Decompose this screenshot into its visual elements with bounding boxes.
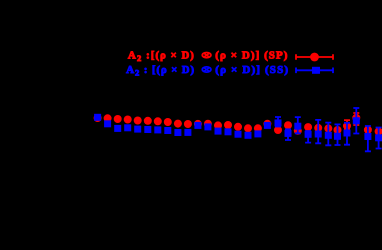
blue point 10 [184,129,191,136]
blue point 2 [104,120,111,127]
blue errorbar x=356.3 [353,108,359,134]
svg-text:(ρ × D)] (SP): (ρ × D)] (SP) [215,50,288,62]
blue point 1 [94,114,101,121]
red point 17 [254,124,262,132]
blue errorbar x=347.0 [344,123,350,145]
red point 8 [164,118,172,126]
blue point 27 [353,117,360,124]
blue point 26 [344,130,351,137]
red point 3 [114,115,122,123]
blue point 5 [134,126,141,133]
blue point 20 [285,130,292,137]
red point 26 [343,122,351,130]
blue errorbar x=337.5 [335,124,341,145]
blue point 19 [275,119,282,126]
blue point 4 [124,124,131,131]
red point 20 [284,121,292,129]
blue point 24 [325,132,332,139]
red point 22 [304,123,312,131]
svg-text:(ρ × D)] (SS): (ρ × D)] (SS) [215,64,289,76]
legend otimes symbol blue [202,67,211,72]
red point 18 [263,120,271,128]
red point 19 [274,126,282,134]
blue point 9 [174,129,181,136]
red point 25 [334,126,342,134]
blue point 18 [264,122,271,129]
red point 28 [364,126,372,134]
blue point 22 [305,131,312,138]
blue point 17 [254,130,261,137]
red point 2 [104,114,112,122]
blue errorbar x=367.9 [365,126,371,151]
blue point 14 [225,128,232,135]
red point 11 [194,120,202,128]
legend sample blue: line with caps and square marker [296,68,333,74]
red point 6 [144,117,152,125]
red point 5 [134,117,142,125]
red point 1 [94,114,102,122]
red point 12 [204,120,212,128]
blue point 8 [164,127,171,134]
red point 4 [124,116,132,124]
legend otimes symbol red [202,53,211,58]
red point 16 [244,124,252,132]
legend sample red: line with caps and circle marker [296,54,333,60]
red point 24 [324,124,332,132]
red errorbar x=356.3 [353,113,359,125]
red point 23 [314,124,322,132]
blue errorbar x=328.3 [325,123,331,146]
blue errorbar x=297.8 [295,117,301,133]
red point 15 [234,123,242,131]
red point 29 [375,127,382,135]
blue point 13 [215,128,222,135]
blue point 21 [294,123,301,130]
blue point 25 [334,133,341,140]
red point 27 [352,114,360,122]
red point 21 [294,127,302,135]
red point 9 [174,120,182,128]
red point 13 [214,121,222,129]
red point 14 [224,121,232,129]
blue point 12 [204,123,211,130]
blue point 28 [364,133,371,140]
blue point 3 [114,125,121,132]
red point 7 [154,117,162,125]
blue point 7 [154,126,161,133]
blue point 16 [245,132,252,139]
blue errorbar x=288.0 [285,129,291,140]
blue point 11 [194,122,201,129]
blue errorbar x=278.0 [275,117,281,127]
blue errorbar x=318.2 [315,120,321,143]
blue errorbar x=308.1 [305,131,311,143]
blue point 23 [315,131,322,138]
red errorbar x=347.0 [344,120,350,129]
blue point 29 [375,134,382,141]
blue point 15 [235,131,242,138]
red point 10 [184,120,192,128]
blue errorbar x=378.6 [376,128,382,149]
blue point 6 [144,126,151,133]
